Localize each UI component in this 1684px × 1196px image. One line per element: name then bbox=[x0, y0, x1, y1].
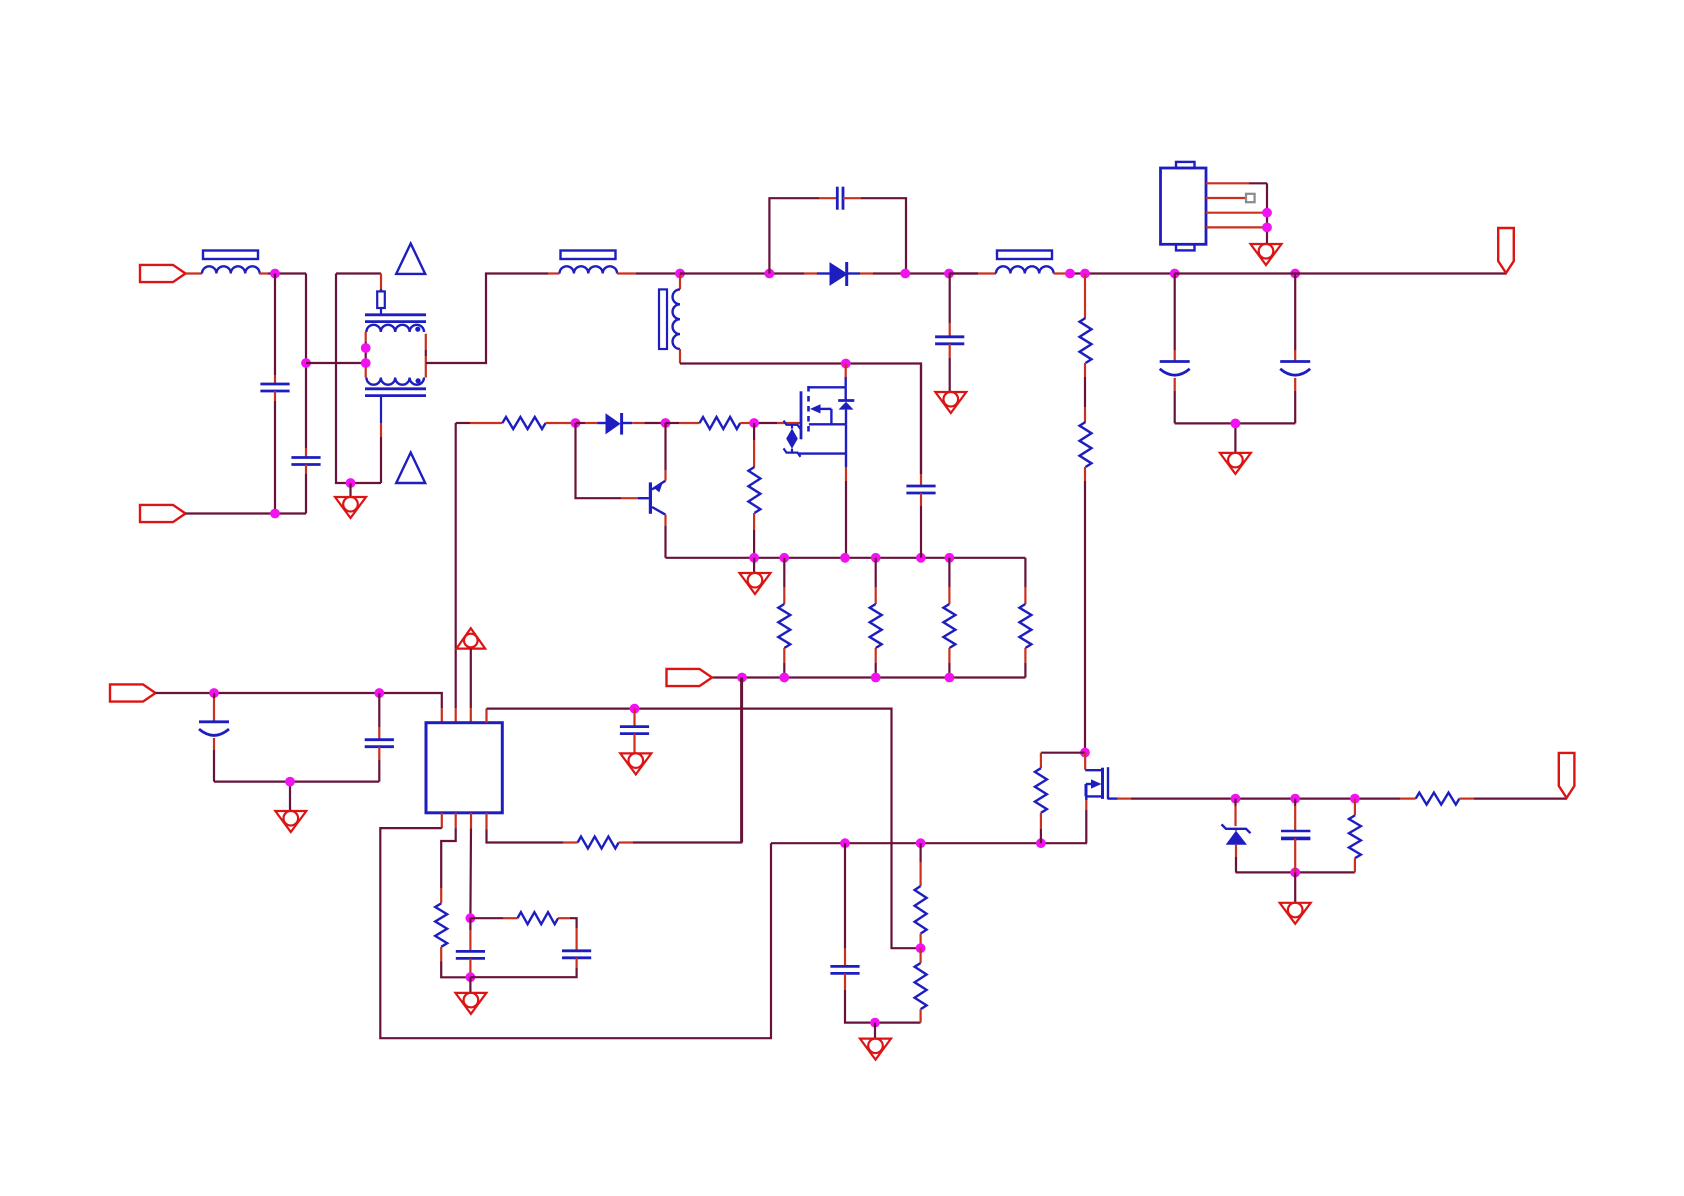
transformer T2 bbox=[679, 274, 681, 290]
junction dot bbox=[1262, 223, 1272, 233]
capacitor C6 bbox=[1294, 274, 1296, 351]
wire bbox=[874, 1023, 876, 1039]
wire bbox=[680, 364, 921, 475]
wire bbox=[949, 272, 978, 274]
capacitor C2 bbox=[305, 448, 307, 458]
ground bbox=[935, 392, 966, 413]
wire bbox=[741, 678, 743, 843]
ground bbox=[1280, 903, 1311, 924]
wire bbox=[485, 813, 487, 830]
resistor R16 bbox=[1354, 799, 1356, 816]
IC U1 bbox=[426, 723, 502, 813]
wire bbox=[349, 483, 351, 497]
wire bbox=[470, 813, 472, 828]
ferrite bead FB2 bbox=[561, 251, 616, 260]
capacitor C4 bbox=[949, 274, 951, 324]
connector P2 bbox=[140, 505, 186, 522]
wire bbox=[1054, 272, 1070, 274]
ground bbox=[620, 753, 651, 774]
connector P1 bbox=[140, 265, 186, 282]
junction dot bbox=[765, 269, 775, 279]
junction dot bbox=[779, 673, 789, 683]
wire bbox=[426, 274, 548, 364]
wire bbox=[487, 709, 921, 949]
wire bbox=[186, 512, 307, 514]
wire bbox=[455, 423, 457, 708]
capacitor C5 bbox=[1174, 274, 1176, 351]
junction dot bbox=[1036, 838, 1046, 848]
junction dot bbox=[661, 418, 671, 428]
resistor R17 bbox=[1416, 793, 1460, 805]
junction dot bbox=[630, 704, 640, 714]
ground bbox=[1251, 244, 1282, 265]
junction dot bbox=[1170, 269, 1180, 279]
fuse F1 bbox=[380, 274, 382, 292]
junction dot bbox=[871, 673, 881, 683]
wire bbox=[873, 272, 978, 274]
resistor R15 bbox=[1041, 752, 1085, 754]
pin 2 no-connect bbox=[1206, 197, 1246, 199]
wire bbox=[576, 423, 622, 498]
wire bbox=[306, 362, 366, 364]
ground bbox=[275, 811, 306, 832]
junction dot bbox=[1290, 269, 1300, 279]
junction dot bbox=[840, 553, 850, 563]
junction dot bbox=[945, 673, 955, 683]
mosfet Q1 bbox=[800, 391, 803, 439]
junction dot bbox=[1290, 794, 1300, 804]
junction dot bbox=[841, 359, 851, 369]
junction dot bbox=[466, 972, 476, 982]
connector P5 bbox=[110, 684, 156, 701]
resistor R5 bbox=[753, 423, 755, 440]
diode D1 bbox=[804, 272, 817, 274]
triangle symbol W1 bbox=[396, 244, 425, 274]
resistor R1 bbox=[1084, 274, 1086, 303]
wire bbox=[186, 272, 203, 274]
junction dot bbox=[749, 553, 759, 563]
junction dot bbox=[270, 269, 280, 279]
wire bbox=[680, 272, 804, 274]
wire bbox=[617, 272, 636, 274]
power flag bbox=[456, 628, 485, 648]
connector P6 bbox=[1559, 753, 1575, 798]
wire bbox=[546, 422, 576, 424]
wire bbox=[259, 272, 268, 274]
body diode bbox=[845, 387, 847, 400]
junction dot bbox=[1290, 868, 1300, 878]
transistor Q2 bbox=[649, 482, 652, 513]
connector P4 bbox=[667, 669, 713, 686]
junction dot bbox=[945, 553, 955, 563]
wire bbox=[456, 422, 470, 424]
capacitor C8 bbox=[213, 693, 215, 698]
capacitor C1 bbox=[274, 274, 276, 376]
ground bbox=[335, 497, 366, 518]
pin 4 wire bbox=[1206, 226, 1263, 228]
capacitor C10 bbox=[633, 709, 635, 727]
junction dot bbox=[944, 269, 954, 279]
junction dot bbox=[675, 269, 685, 279]
ground bbox=[1220, 453, 1251, 474]
resistor R6 bbox=[783, 558, 785, 587]
resistor R7 bbox=[875, 558, 877, 587]
capacitor C13 bbox=[844, 843, 846, 949]
ground bbox=[753, 558, 755, 573]
junction dot bbox=[900, 269, 910, 279]
tvs Z1 bbox=[784, 421, 801, 429]
junction dot bbox=[1350, 794, 1360, 804]
wire bbox=[336, 272, 381, 274]
zener D3 bbox=[1234, 799, 1236, 806]
ferrite bead FB1 bbox=[203, 251, 258, 260]
junction dot bbox=[737, 673, 747, 683]
junction dot bbox=[871, 553, 881, 563]
wire bbox=[156, 693, 442, 708]
ground bbox=[455, 993, 486, 1014]
resistor R4 bbox=[666, 422, 680, 424]
junction dot bbox=[840, 838, 850, 848]
wire bbox=[214, 780, 379, 782]
wire bbox=[1175, 422, 1296, 424]
capacitor C9 bbox=[378, 693, 380, 727]
resistor R13 bbox=[919, 843, 921, 862]
mosfet Q3 bbox=[1084, 753, 1086, 770]
wire bbox=[769, 198, 819, 273]
resistor R8 bbox=[948, 558, 950, 587]
diode D2 bbox=[576, 422, 585, 424]
junction dot bbox=[209, 688, 219, 698]
battery holder BH1 bbox=[1161, 168, 1207, 244]
wire bbox=[485, 709, 487, 723]
ground bbox=[860, 1039, 891, 1060]
wire bbox=[771, 842, 1087, 844]
wire bbox=[843, 197, 861, 199]
junction dot bbox=[1262, 208, 1272, 218]
capacitor C3 bbox=[836, 187, 839, 210]
wire bbox=[469, 977, 471, 993]
ferrite bead FB3 bbox=[997, 251, 1052, 260]
junction dot bbox=[361, 343, 371, 353]
resistor R11 bbox=[470, 917, 503, 919]
wire bbox=[470, 649, 472, 709]
junction dot bbox=[1080, 269, 1090, 279]
pin 3 wire bbox=[1206, 212, 1263, 214]
wire bbox=[380, 423, 382, 437]
junction dot bbox=[374, 688, 384, 698]
junction dot bbox=[1080, 748, 1090, 758]
wire bbox=[1236, 871, 1355, 873]
junction dot bbox=[285, 777, 295, 787]
resistor R2 bbox=[1080, 422, 1092, 467]
junction dot bbox=[779, 553, 789, 563]
junction dot bbox=[870, 1018, 880, 1028]
junction dot bbox=[466, 913, 476, 923]
resistor R9 bbox=[1024, 558, 1026, 587]
junction dot bbox=[571, 418, 581, 428]
resistor R12 bbox=[578, 837, 619, 849]
wire bbox=[455, 813, 457, 828]
connector P3 bbox=[1498, 228, 1514, 273]
wire bbox=[441, 813, 443, 828]
resistor R3 bbox=[502, 417, 545, 429]
wire bbox=[666, 557, 1026, 559]
junction dot bbox=[916, 838, 926, 848]
wire bbox=[1175, 272, 1506, 274]
junction dot bbox=[916, 943, 926, 953]
transformer T1 (common-mode choke) bbox=[365, 313, 426, 316]
capacitor C7 bbox=[920, 364, 922, 475]
capacitor C12 bbox=[575, 928, 577, 951]
junction dot bbox=[1231, 794, 1241, 804]
capacitor C11 bbox=[469, 918, 471, 930]
triangle symbol W2 bbox=[396, 453, 425, 484]
junction dot bbox=[361, 358, 371, 368]
wire bbox=[754, 422, 777, 424]
resistor R14 bbox=[919, 948, 921, 963]
junction dot bbox=[270, 509, 280, 519]
wire bbox=[1294, 872, 1296, 902]
junction dot bbox=[301, 358, 311, 368]
wire bbox=[712, 676, 1025, 678]
junction dot bbox=[916, 553, 926, 563]
junction dot bbox=[749, 418, 759, 428]
capacitor C14 bbox=[1294, 799, 1296, 806]
resistor R10 bbox=[435, 903, 447, 946]
wire bbox=[1131, 797, 1400, 799]
junction dot bbox=[346, 478, 356, 488]
pin 1 wire bbox=[1206, 182, 1249, 184]
junction dot bbox=[1065, 269, 1075, 279]
junction dot bbox=[1231, 419, 1241, 429]
